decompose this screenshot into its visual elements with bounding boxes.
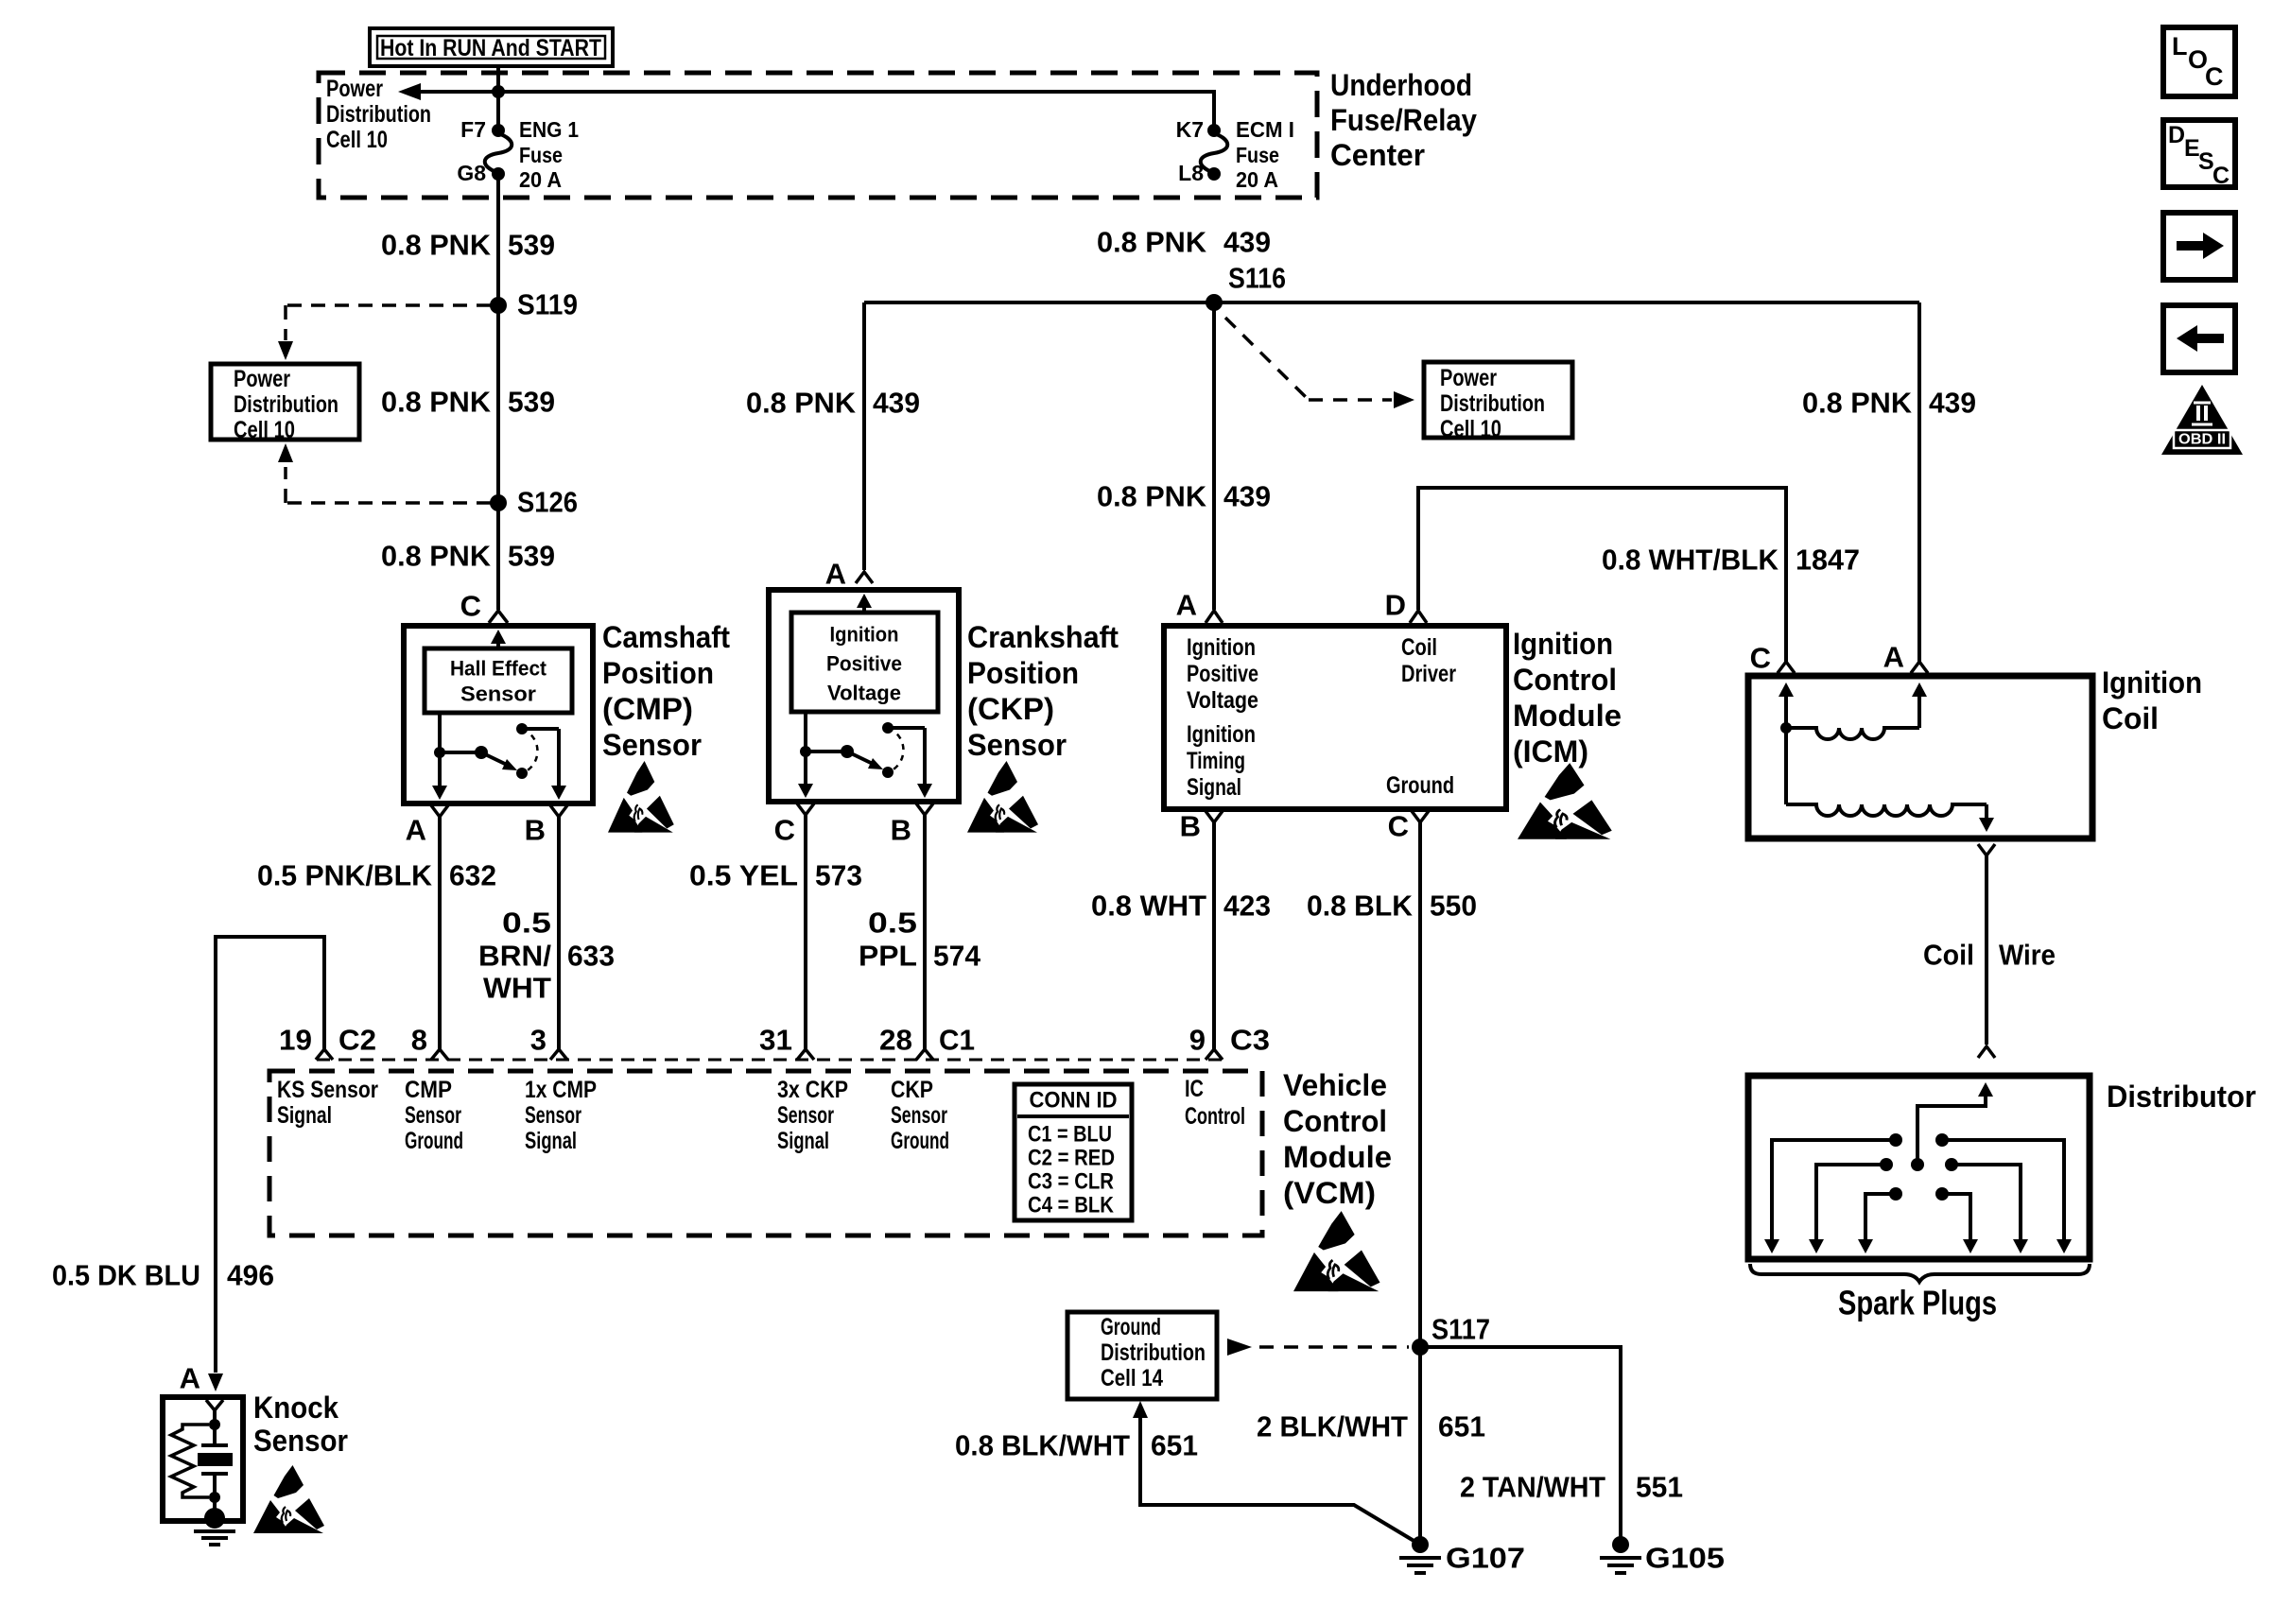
dashed reference from S116 to Power Distribution Cell 10 — [1225, 318, 1414, 408]
ESD symbol (ICM) — [1518, 763, 1612, 839]
svg-text:Sensor: Sensor — [460, 682, 536, 706]
ESD symbol (VCM) — [1293, 1211, 1380, 1291]
svg-text:B: B — [1180, 810, 1201, 843]
svg-text:Wire: Wire — [1999, 939, 2056, 972]
distributor contacts and spark plug wires — [1764, 1133, 2072, 1253]
svg-text:G105: G105 — [1645, 1542, 1725, 1575]
svg-text:0.8 WHT: 0.8 WHT — [1091, 890, 1206, 923]
svg-text:Coil: Coil — [1923, 939, 1974, 972]
svg-text:0.5: 0.5 — [868, 907, 917, 940]
svg-text:551: 551 — [1636, 1471, 1683, 1504]
svg-text:S117: S117 — [1431, 1313, 1490, 1346]
svg-text:Voltage: Voltage — [1187, 687, 1258, 714]
svg-text:Camshaft: Camshaft — [602, 620, 730, 654]
svg-text:9: 9 — [1189, 1024, 1206, 1057]
svg-text:Control: Control — [1513, 663, 1617, 697]
svg-text:CONN ID: CONN ID — [1030, 1088, 1118, 1114]
svg-text:C4 = BLK: C4 = BLK — [1028, 1193, 1115, 1218]
svg-text:1847: 1847 — [1796, 544, 1860, 577]
svg-text:C2 = RED: C2 = RED — [1028, 1146, 1115, 1171]
ground G105 — [1600, 1536, 1725, 1575]
svg-text:20 A: 20 A — [1236, 167, 1278, 192]
svg-text:Ignition: Ignition — [2102, 665, 2202, 700]
label: Underhood Fuse/Relay Center — [1330, 68, 1477, 172]
label: 0.5 PPL 574 — [859, 907, 981, 973]
svg-text:G8: G8 — [457, 161, 486, 185]
svg-text:Cell 10: Cell 10 — [1440, 416, 1501, 442]
svg-text:0.8 PNK: 0.8 PNK — [1097, 480, 1207, 513]
svg-text:Module: Module — [1283, 1140, 1392, 1174]
label: Coil Wire — [1923, 939, 2056, 972]
svg-text:423: 423 — [1223, 890, 1271, 923]
svg-text:Coil: Coil — [1401, 634, 1437, 661]
label: 0.5 DK BLU 496 — [52, 1259, 274, 1292]
wire: knock sensor signal 0.5 DK BLU 496 — [216, 937, 324, 1373]
svg-text:A: A — [406, 814, 426, 847]
wire: S117 right branch to G105 — [1420, 1347, 1621, 1541]
label: Ignition Coil — [2102, 665, 2202, 735]
knock sensor internal connector chevron — [206, 1400, 223, 1430]
svg-text:Center: Center — [1330, 138, 1425, 172]
svg-text:Distribution: Distribution — [1101, 1339, 1206, 1366]
svg-text:C3: C3 — [1230, 1024, 1270, 1057]
svg-text:OBD II: OBD II — [2178, 432, 2226, 448]
dashed branch from S119 to Power Distribution box — [278, 305, 491, 360]
svg-text:Signal: Signal — [525, 1128, 577, 1154]
label: 0.8 PNK 539 (second) — [381, 386, 555, 419]
svg-text:Control: Control — [1283, 1104, 1387, 1138]
label: 0.8 PNK 439 (CKP) — [746, 387, 920, 420]
Knock Sensor box — [163, 1397, 243, 1521]
svg-text:PPL: PPL — [859, 940, 917, 973]
icon: LOC box — [2163, 27, 2235, 96]
label: 0.8 WHT/BLK 1847 — [1602, 544, 1860, 577]
label: Knock Sensor — [253, 1391, 348, 1458]
svg-text:Fuse: Fuse — [519, 143, 563, 167]
label: 0.5 YEL 573 — [689, 859, 862, 892]
svg-text:Ground: Ground — [1101, 1314, 1161, 1340]
svg-text:550: 550 — [1430, 890, 1477, 923]
wire: top feed with left arrow to Power Distribution — [398, 83, 1214, 125]
svg-text:Module: Module — [1513, 699, 1622, 733]
svg-text:8: 8 — [411, 1024, 427, 1057]
label: Vehicle Control Module (VCM) — [1283, 1068, 1392, 1210]
svg-text:Sensor: Sensor — [525, 1102, 581, 1129]
dashed branch from S126 up to Power Distribution box — [278, 443, 491, 503]
svg-text:19: 19 — [279, 1024, 312, 1057]
VCM dashed box — [269, 1071, 1262, 1235]
svg-text:Cell 10: Cell 10 — [326, 127, 388, 153]
svg-text:2 TAN/WHT: 2 TAN/WHT — [1460, 1471, 1605, 1504]
svg-text:ECM I: ECM I — [1236, 117, 1294, 142]
label: 0.8 BLK 550 — [1307, 890, 1477, 923]
node S117 — [1412, 1313, 1490, 1356]
brace for spark plugs — [1750, 1264, 2090, 1282]
dashed reference from Ground Distribution box to S117 — [1227, 1339, 1409, 1356]
svg-text:Sensor: Sensor — [602, 728, 702, 762]
svg-text:Ignition: Ignition — [830, 623, 899, 647]
svg-text:Signal: Signal — [777, 1128, 829, 1154]
CKP sensor outer box — [769, 590, 959, 802]
svg-text:0.8 PNK: 0.8 PNK — [1097, 226, 1207, 259]
svg-text:Ground: Ground — [1386, 772, 1454, 799]
label: 2 TAN/WHT 551 — [1460, 1471, 1683, 1504]
svg-text:Distribution: Distribution — [1440, 390, 1545, 417]
coil wire output chevron and wire — [1978, 844, 1995, 1045]
box: Ground Distribution Cell 14 — [1067, 1312, 1217, 1399]
svg-text:0.8 BLK/WHT: 0.8 BLK/WHT — [955, 1429, 1130, 1462]
svg-text:Coil: Coil — [2102, 701, 2159, 735]
svg-text:539: 539 — [508, 386, 555, 419]
box: Power Distribution Cell 10 (middle) — [1424, 362, 1572, 442]
svg-text:Distributor: Distributor — [2107, 1080, 2256, 1114]
wire: left branch down to CKP pin A — [862, 302, 866, 570]
svg-text:2 BLK/WHT: 2 BLK/WHT — [1257, 1410, 1408, 1443]
svg-text:WHT: WHT — [483, 972, 551, 1005]
svg-text:Ground: Ground — [891, 1128, 949, 1154]
wire: S116 right branch down to Ignition Coil pin A — [1917, 302, 1921, 662]
svg-text:C: C — [1388, 810, 1409, 843]
svg-text:A: A — [180, 1362, 200, 1395]
svg-text:651: 651 — [1438, 1410, 1485, 1443]
wire: S116 horizontal distribution — [864, 294, 1919, 311]
svg-text:574: 574 — [933, 940, 981, 973]
svg-text:3x CKP: 3x CKP — [777, 1077, 848, 1103]
ICM pins B and C chevrons — [1180, 810, 1429, 1546]
svg-text:Underhood: Underhood — [1330, 68, 1472, 102]
svg-text:S116: S116 — [1228, 262, 1286, 295]
svg-text:0.8 PNK: 0.8 PNK — [381, 540, 492, 573]
CKP internal: arrow up to top edge — [857, 594, 872, 613]
svg-text:496: 496 — [227, 1259, 274, 1292]
svg-text:439: 439 — [1223, 226, 1271, 259]
svg-text:ENG 1: ENG 1 — [519, 117, 579, 142]
svg-text:CKP: CKP — [891, 1077, 933, 1103]
Ignition Coil box — [1748, 676, 2092, 838]
svg-text:Fuse: Fuse — [1236, 143, 1279, 167]
svg-text:0.8 PNK: 0.8 PNK — [1802, 387, 1913, 420]
pin A of CKP sensor — [825, 558, 873, 591]
svg-text:Power: Power — [326, 76, 383, 102]
svg-text:D: D — [1385, 589, 1406, 622]
svg-text:B: B — [891, 814, 911, 847]
svg-text:Knock: Knock — [253, 1391, 338, 1425]
distributor input chevron — [1978, 1046, 1995, 1058]
label: 0.8 WHT 423 — [1091, 890, 1271, 923]
svg-text:CMP: CMP — [405, 1077, 452, 1103]
svg-text:Signal: Signal — [277, 1102, 332, 1129]
label: 0.8 PNK 539 (first) — [381, 229, 555, 262]
svg-text:Power: Power — [234, 366, 290, 392]
svg-text:Cell 14: Cell 14 — [1101, 1365, 1163, 1391]
Underhood Fuse/Relay Center dashed box — [319, 73, 1317, 198]
ESD symbol (Knock Sensor) — [253, 1465, 324, 1533]
VCM pin number labels — [279, 1024, 1270, 1057]
fuse ECM I (K7/L8) — [1176, 117, 1294, 192]
VCM pin function labels — [277, 1076, 1245, 1154]
pin C of CMP sensor (connector chevron) — [460, 590, 508, 624]
wire: S116 down to ICM pin A — [1212, 302, 1216, 610]
icon: left arrow box — [2163, 305, 2235, 372]
label: 0.8 BLK/WHT 651 — [955, 1429, 1198, 1462]
svg-text:28: 28 — [879, 1024, 912, 1057]
svg-text:A: A — [1176, 589, 1197, 622]
label: 0.8 PNK 439 (above S116) — [1097, 226, 1271, 259]
Ignition Coil internals: secondary winding — [1786, 728, 1994, 832]
knock sensor resistor — [171, 1425, 209, 1497]
svg-text:439: 439 — [873, 387, 920, 420]
svg-text:0.5 YEL: 0.5 YEL — [689, 859, 798, 892]
svg-text:Ignition: Ignition — [1513, 627, 1613, 661]
label: Crankshaft Position (CKP) Sensor — [967, 620, 1119, 762]
svg-text:Positive: Positive — [1187, 661, 1258, 687]
svg-text:C2: C2 — [338, 1024, 376, 1057]
Ignition Positive Voltage inner box — [791, 613, 938, 712]
svg-text:0.8 PNK: 0.8 PNK — [381, 386, 492, 419]
svg-text:31: 31 — [759, 1024, 792, 1057]
CMP pins A and B chevrons — [406, 805, 567, 1049]
svg-text:Voltage: Voltage — [827, 682, 901, 705]
Ignition Coil pins C and A chevrons — [1750, 641, 1928, 675]
CKP pins C and B chevrons — [774, 803, 933, 1049]
svg-text:K7: K7 — [1176, 117, 1204, 142]
ESD symbol (CKP) — [967, 761, 1038, 833]
svg-text:0.8 PNK: 0.8 PNK — [381, 229, 492, 262]
label: 0.5 PNK/BLK 632 — [257, 859, 496, 892]
svg-text:Signal: Signal — [1187, 774, 1241, 801]
VCM inline connector dashed line — [317, 1059, 1226, 1062]
VCM pin chevrons — [316, 1049, 1223, 1060]
svg-text:539: 539 — [508, 229, 555, 262]
CMP sensor outer box — [404, 626, 593, 803]
CMP internal switch symbol — [432, 713, 566, 800]
ground G107 — [1399, 1536, 1525, 1575]
wire from Hot In RUN box down to fuse F7 — [496, 66, 500, 130]
Distributor box — [1748, 1076, 2090, 1259]
label: Ignition Control Module (ICM) — [1513, 627, 1622, 769]
svg-text:Sensor: Sensor — [967, 728, 1067, 762]
knock sensor ground — [194, 1497, 235, 1545]
svg-text:L8: L8 — [1178, 161, 1204, 185]
svg-text:L: L — [2172, 32, 2188, 60]
svg-text:Position: Position — [967, 656, 1079, 690]
label: 0.8 PNK 439 (ICM) — [1097, 480, 1271, 513]
svg-text:Control: Control — [1185, 1103, 1245, 1130]
svg-text:C: C — [1750, 642, 1771, 675]
svg-text:Fuse/Relay: Fuse/Relay — [1330, 103, 1477, 137]
Hall Effect Sensor inner box — [425, 648, 572, 713]
svg-text:Positive: Positive — [826, 652, 902, 676]
svg-text:(ICM): (ICM) — [1513, 734, 1588, 769]
fuse ENG 1 (F7/G8) — [457, 117, 579, 192]
icon: right arrow box — [2163, 213, 2235, 280]
svg-text:0.5: 0.5 — [502, 907, 551, 940]
ICM pins A and D chevrons — [1176, 589, 1427, 624]
svg-text:0.5 DK BLU: 0.5 DK BLU — [52, 1259, 200, 1292]
icon: OBD II triangle — [2161, 385, 2243, 455]
label: Power Distribution Cell 10 (in fuse box) — [326, 76, 431, 153]
svg-text:A: A — [825, 558, 846, 591]
svg-text:B: B — [525, 814, 546, 847]
svg-text:S126: S126 — [517, 486, 578, 519]
svg-text:Ignition: Ignition — [1187, 634, 1256, 661]
CONN ID box — [1015, 1084, 1132, 1220]
svg-text:Hot In RUN And START: Hot In RUN And START — [380, 35, 601, 61]
svg-text:439: 439 — [1929, 387, 1976, 420]
CMP internal: arrow up from hall sensor to top edge — [491, 630, 506, 648]
svg-text:C: C — [774, 814, 795, 847]
knock sensor piezo element — [198, 1425, 233, 1503]
svg-text:Sensor: Sensor — [777, 1102, 834, 1129]
svg-text:539: 539 — [508, 540, 555, 573]
box: Power Distribution Cell 10 (left) — [211, 364, 359, 443]
svg-text:3: 3 — [530, 1024, 547, 1057]
svg-text:Ignition: Ignition — [1187, 721, 1256, 748]
svg-text:S119: S119 — [517, 288, 578, 321]
svg-text:439: 439 — [1223, 480, 1271, 513]
svg-text:(VCM): (VCM) — [1283, 1176, 1376, 1210]
svg-text:(CKP): (CKP) — [967, 692, 1054, 726]
node S126 — [490, 486, 578, 519]
svg-text:C: C — [460, 590, 481, 623]
svg-text:0.5 PNK/BLK: 0.5 PNK/BLK — [257, 859, 433, 892]
label: 0.8 PNK 539 (third) — [381, 540, 555, 573]
CKP internal switch symbol — [798, 712, 932, 798]
label: 0.5 BRN/WHT 633 — [478, 907, 615, 1005]
wire: 0.8 BLK/WHT from Ground Distribution down to G107 — [1133, 1401, 1420, 1545]
svg-text:Hall Effect: Hall Effect — [450, 657, 547, 681]
svg-text:Vehicle: Vehicle — [1283, 1068, 1387, 1102]
svg-text:20 A: 20 A — [519, 167, 562, 192]
svg-text:C1 = BLU: C1 = BLU — [1028, 1122, 1112, 1148]
distributor rotor — [1911, 1082, 1993, 1171]
svg-text:C: C — [2212, 163, 2230, 189]
svg-text:Ground: Ground — [405, 1128, 463, 1154]
icon: DESC box — [2163, 120, 2235, 189]
svg-text:IC: IC — [1185, 1076, 1204, 1102]
svg-text:C: C — [2205, 62, 2224, 91]
svg-text:KS Sensor: KS Sensor — [277, 1077, 378, 1103]
svg-text:0.8 PNK: 0.8 PNK — [746, 387, 857, 420]
label: 0.8 PNK 439 (Ignition Coil feed) — [1802, 387, 1976, 420]
ICM pin function labels — [1187, 634, 1456, 801]
svg-text:C1: C1 — [939, 1024, 975, 1057]
svg-text:Sensor: Sensor — [405, 1102, 461, 1129]
node S119 — [490, 288, 578, 321]
svg-text:1x CMP: 1x CMP — [525, 1077, 597, 1103]
svg-text:C3 = CLR: C3 = CLR — [1028, 1169, 1114, 1195]
svg-text:Power: Power — [1440, 365, 1497, 391]
ESD symbol (CMP) — [608, 761, 674, 833]
svg-text:573: 573 — [815, 859, 862, 892]
Ignition Coil internals: primary winding — [1778, 682, 1927, 739]
svg-text:Cell 10: Cell 10 — [234, 417, 295, 443]
svg-text:Crankshaft: Crankshaft — [967, 620, 1119, 654]
wire: ICM pin D up/right/down to Ignition Coil pin C (WHT/BLK 1847) — [1416, 488, 1788, 662]
svg-text:F7: F7 — [460, 117, 486, 142]
svg-text:Sensor: Sensor — [891, 1102, 947, 1129]
svg-text:(CMP): (CMP) — [602, 692, 693, 726]
ICM box — [1164, 626, 1506, 809]
svg-text:Sensor: Sensor — [253, 1424, 348, 1458]
svg-text:0.8 WHT/BLK: 0.8 WHT/BLK — [1602, 544, 1779, 577]
label: Camshaft Position (CMP) Sensor — [602, 620, 730, 762]
svg-text:Spark Plugs: Spark Plugs — [1838, 1284, 1997, 1322]
svg-text:Distribution: Distribution — [326, 101, 431, 128]
svg-text:A: A — [1883, 641, 1904, 674]
svg-text:D: D — [2168, 122, 2185, 148]
svg-text:Driver: Driver — [1401, 661, 1456, 687]
svg-text:651: 651 — [1151, 1429, 1198, 1462]
svg-text:632: 632 — [449, 859, 496, 892]
svg-text:0.8 BLK: 0.8 BLK — [1307, 890, 1414, 923]
svg-text:633: 633 — [567, 940, 615, 973]
svg-text:Timing: Timing — [1187, 748, 1245, 774]
wire: PNK 539 from G8 down to CMP pin C — [496, 174, 500, 610]
svg-text:Position: Position — [602, 656, 714, 690]
svg-text:G107: G107 — [1446, 1542, 1525, 1575]
svg-text:Distribution: Distribution — [234, 391, 338, 418]
node: Hot In RUN And START box — [370, 28, 613, 66]
svg-text:BRN/: BRN/ — [478, 940, 551, 973]
label: 2 BLK/WHT 651 — [1257, 1410, 1485, 1443]
